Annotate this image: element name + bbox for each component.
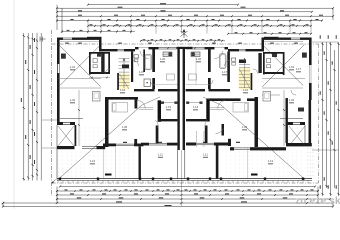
svg-text:1.12: 1.12 (268, 159, 274, 163)
building outer walls (57, 37, 312, 180)
svg-text:1.20: 1.20 (196, 57, 202, 61)
svg-text:1.02: 1.02 (289, 98, 295, 102)
right dimension lines (312, 35, 340, 196)
right unit interior walls and fixtures (186, 47, 307, 179)
yellow room left unit staircase (119, 74, 130, 90)
faint page fold line left (13, 0, 15, 209)
svg-text:1.11: 1.11 (203, 153, 208, 157)
svg-text:1.01: 1.01 (70, 65, 76, 69)
terrace paving, edge and fence posts (57, 128, 313, 183)
svg-text:1.20: 1.20 (160, 57, 166, 61)
svg-text:1.07: 1.07 (139, 70, 145, 74)
svg-text:1.10: 1.10 (243, 88, 249, 92)
left unit interior walls and fixtures (58, 47, 177, 179)
bottom dimension lines (2, 150, 334, 208)
right unit door swing arcs (196, 51, 296, 134)
utility connection symbol (40, 37, 46, 42)
svg-text:1.11: 1.11 (158, 153, 163, 157)
right unit diagonal marks (203, 45, 305, 180)
svg-text:zu eze.sk: zu eze.sk (295, 196, 340, 207)
svg-text:1.01: 1.01 (289, 65, 295, 69)
left unit door swing arcs (105, 51, 158, 128)
upper secondary dimension lines (61, 30, 312, 42)
top dimension lines (56, 3, 334, 33)
svg-text:1.12: 1.12 (90, 159, 96, 163)
left dimension lines (21, 30, 57, 196)
svg-text:1.10: 1.10 (120, 88, 126, 92)
svg-text:1.03: 1.03 (242, 125, 248, 129)
yellow room right unit staircase (239, 68, 251, 90)
room number labels (70, 57, 302, 164)
svg-text:1.17: 1.17 (296, 67, 302, 71)
svg-text:1.02: 1.02 (70, 98, 76, 102)
porch dimension text and entry arrow (52, 43, 298, 184)
svg-text:1.13: 1.13 (193, 105, 199, 109)
party wall (177, 47, 193, 179)
roof overhang dashed outline (52, 44, 319, 183)
north arrow (181, 30, 188, 39)
svg-text:1.17: 1.17 (222, 70, 228, 74)
svg-text:1.05: 1.05 (122, 125, 128, 129)
left unit diagonal marks (58, 45, 160, 180)
svg-text:1.13: 1.13 (166, 105, 172, 109)
